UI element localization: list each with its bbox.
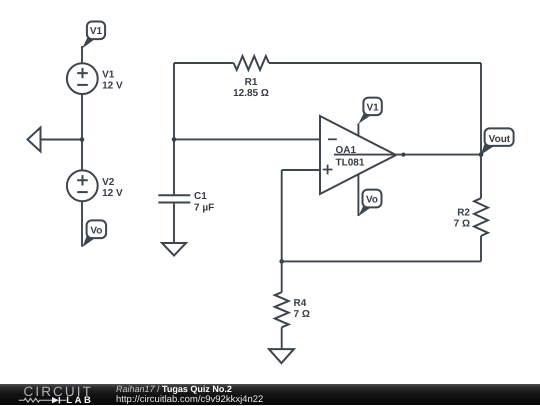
svg-text:R4: R4 [294,298,307,309]
svg-text:12.85 Ω: 12.85 Ω [233,88,269,99]
svg-text:V1: V1 [366,102,379,113]
logo resistor-diode icon [17,395,67,405]
svg-text:R2: R2 [457,208,470,219]
V2 minus sign [77,191,88,193]
V2 plus sign [77,175,88,185]
wire left vertical R1 to C1 [173,63,175,195]
svg-text:OA1: OA1 [336,145,357,156]
svg-text:7 Ω: 7 Ω [454,218,470,229]
wire R1 to top right corner [269,62,481,64]
svg-text:Vo: Vo [366,194,378,205]
voltage source V2 circle [67,170,98,201]
resistor R4 zigzag [275,292,289,327]
svg-text:V1: V1 [90,26,103,37]
wire R2 bottom lead [480,236,482,262]
wire op-amp V+ pin [357,123,359,136]
wire output [334,154,481,156]
wire inverting input [174,138,320,140]
footer bar [0,384,540,405]
CircuitLab logo [24,384,93,399]
wire op-amp V- pin [357,174,359,216]
svg-text:V2: V2 [102,177,115,188]
wire V1 source bottom to V2 source top [81,94,83,170]
junction dot bottom node [279,259,284,264]
V1 minus sign [77,84,88,86]
wire R4 bottom lead [281,327,283,349]
svg-text:7 µF: 7 µF [194,202,214,213]
wire R2 top lead [480,155,482,199]
wire noninverting down to bottom node [281,170,283,261]
footer title line [116,384,232,394]
wire R4 top lead [281,261,283,292]
svg-text:Vo: Vo [90,225,102,236]
junction dot left arrow node [80,137,85,142]
svg-text:TL081: TL081 [336,157,365,168]
ground symbol below R4 [269,349,294,363]
svg-text:7 Ω: 7 Ω [294,309,310,320]
ground symbol below C1 [162,243,186,256]
net flag Vout [481,128,514,154]
net flag V1 at op-amp V+ [358,98,381,124]
wire net V1 flag to V1 source top [81,46,83,63]
net flag V1 top left [82,22,105,49]
junction dot Vout node [479,152,484,157]
op-amp plus input mark [323,165,333,175]
svg-text:Vout: Vout [489,134,511,145]
svg-text:C1: C1 [194,191,207,202]
V1 plus sign [77,68,88,78]
svg-text:R1: R1 [245,77,258,88]
wire bottom horizontal node [282,260,481,262]
svg-text:V1: V1 [102,70,115,81]
wire noninverting input [282,169,320,171]
op-amp OA1 triangle [320,116,396,194]
junction dot op-amp output [401,153,405,157]
wire C1 bottom plate to ground [173,203,175,244]
left arrow symbol [28,128,41,152]
voltage source V1 circle [67,63,98,94]
wire V2 source bottom to Vo flag [81,201,83,246]
net flag Vo left bottom [82,220,106,247]
wire right vertical feedback [480,63,482,155]
svg-text:12 V: 12 V [102,188,123,199]
footer url line [116,394,263,405]
op-amp minus input mark [328,138,337,140]
resistor R1 zigzag [234,56,269,70]
net flag Vo at op-amp V- [358,190,381,217]
capacitor C1 plates [158,195,190,202]
wire top left horizontal to R1 [174,62,234,64]
resistor R2 zigzag [474,198,488,236]
junction dot inverting node [172,137,177,142]
wire left arrow stub [41,139,83,141]
svg-text:12 V: 12 V [102,81,123,92]
